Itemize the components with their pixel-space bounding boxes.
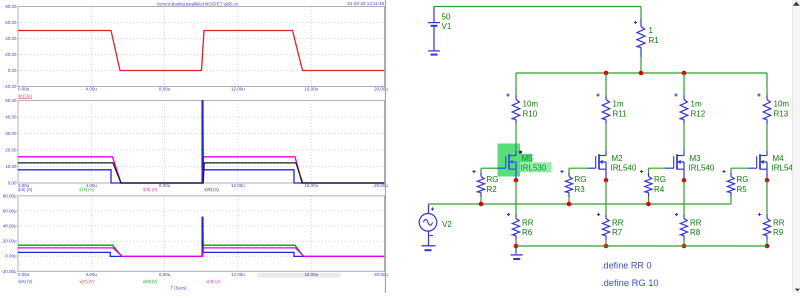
wire R2 to gate bus: [480, 197, 482, 205]
transistor M2: [587, 151, 606, 178]
junction node R3/gate bus: [567, 202, 572, 207]
waveform trace v(r8) plot 3: [18, 245, 304, 256]
label R5 name: [737, 185, 748, 194]
svg-text:8.00u: 8.00u: [159, 272, 171, 277]
junction node R2/gate bus: [479, 202, 484, 207]
svg-text:8.00u: 8.00u: [159, 183, 171, 188]
svg-text:R4: R4: [654, 185, 665, 194]
svg-text:i(v1) (A): i(v1) (A): [18, 93, 32, 98]
svg-text:i(r7) (A): i(r7) (A): [80, 187, 95, 192]
label R6 value RR: [522, 218, 534, 227]
wire M2 source to R7: [605, 180, 607, 214]
svg-text:R12: R12: [691, 109, 706, 118]
label R13 value 10m: [774, 100, 790, 109]
svg-text:RR: RR: [612, 218, 624, 227]
svg-text:40.00: 40.00: [5, 114, 17, 119]
wire M5 source to R6: [515, 180, 517, 214]
svg-text:4.00u: 4.00u: [86, 272, 98, 277]
label R8 value RR: [690, 218, 702, 227]
svg-text:20.00: 20.00: [5, 52, 17, 57]
junction node M5 source: [514, 178, 519, 183]
label R11 value 1m: [613, 100, 624, 109]
label R13 name: [774, 109, 789, 118]
resistor R12: [680, 96, 688, 125]
svg-text:20.00u: 20.00u: [3, 239, 17, 244]
svg-text:10m: 10m: [523, 100, 539, 109]
svg-text:RG: RG: [575, 175, 587, 184]
label R1 name: [649, 36, 660, 45]
svg-text:60.00: 60.00: [5, 20, 17, 25]
svg-text:0.00u: 0.00u: [5, 254, 17, 259]
junction node R4/gate bus: [646, 202, 651, 207]
waveform trace v(r9) plot 3: [18, 248, 384, 257]
wire bus to R11: [605, 73, 607, 96]
label M4 model IRL54: [772, 164, 794, 173]
svg-text:V1: V1: [442, 22, 452, 31]
battery V1: [428, 7, 440, 51]
wire R9 to ground bus: [766, 240, 768, 247]
polarity mark R2 +: [472, 170, 475, 173]
svg-text:IRL54: IRL54: [772, 164, 794, 173]
label R3 name: [575, 185, 586, 194]
svg-text:.define RR 0: .define RR 0: [601, 261, 652, 271]
junction node R9/ground bus: [765, 244, 770, 249]
label M2 name: [612, 154, 624, 163]
wire gate bus from V2: [429, 203, 732, 205]
selection highlight M5: [498, 144, 552, 177]
svg-text:50.00: 50.00: [5, 98, 17, 103]
scrollbar track: [793, 0, 800, 293]
svg-text:RR: RR: [522, 218, 534, 227]
svg-text:v(r6) (V): v(r6) (V): [18, 279, 33, 284]
svg-text:10m: 10m: [774, 100, 790, 109]
svg-text:10.00: 10.00: [5, 164, 17, 169]
svg-text:0.00u: 0.00u: [18, 272, 30, 277]
ground V2: [422, 246, 436, 250]
wire R13 to M4 drain: [766, 124, 768, 151]
polarity mark R6 +: [507, 213, 510, 216]
junction node M3 source: [682, 178, 687, 183]
svg-text:v(r9) (V): v(r9) (V): [206, 279, 221, 284]
polarity mark R9 +: [758, 213, 761, 216]
wire R7 to ground bus: [605, 240, 607, 247]
svg-text:12.00u: 12.00u: [231, 183, 245, 188]
polarity mark R13 +: [757, 93, 760, 96]
svg-text:.define RG 10: .define RG 10: [601, 278, 659, 288]
wire gate M5 to R2: [481, 168, 497, 172]
polarity mark V2 +: [431, 207, 434, 210]
wire gate M2 to R3: [569, 168, 587, 172]
svg-text:M3: M3: [690, 154, 702, 163]
svg-text:T (Secs): T (Secs): [171, 285, 187, 290]
svg-text:R6: R6: [522, 228, 533, 237]
wire top rail V1 to R1: [434, 6, 641, 8]
polarity mark R1 +: [634, 21, 637, 24]
label R4 name: [654, 185, 665, 194]
wire R8 to ground bus: [683, 240, 685, 247]
svg-text:v(r7) (V): v(r7) (V): [80, 279, 95, 284]
label R11 name: [613, 109, 628, 118]
resistor R4 (RG): [645, 173, 652, 197]
svg-text:01-02-23 13:11:48: 01-02-23 13:11:48: [348, 1, 385, 6]
svg-text:30.00: 30.00: [5, 131, 17, 136]
wire R1 to drain bus: [640, 57, 642, 73]
wire drain bus: [516, 72, 767, 74]
svg-text:IRL530: IRL530: [521, 164, 547, 173]
label R6 name: [522, 228, 533, 237]
transistor M5: [497, 151, 516, 178]
wire M3 source to R8: [683, 180, 685, 214]
svg-text:-20.00: -20.00: [4, 84, 17, 89]
svg-text:R9: R9: [773, 228, 784, 237]
polarity mark R8 +: [675, 213, 678, 216]
svg-text:R1: R1: [649, 36, 660, 45]
svg-text:12.00u: 12.00u: [231, 87, 245, 92]
waveform trace i(v1) plot 1: [18, 31, 384, 71]
wire R12 to M3 drain: [683, 124, 685, 151]
svg-text:RG: RG: [654, 175, 666, 184]
label V2 name: [442, 220, 452, 229]
scrollbar down arrow: [795, 289, 800, 292]
polarity mark R7 +: [597, 213, 600, 216]
resistor R11: [602, 96, 610, 125]
waveform trace i(r6) plot 2: [18, 101, 384, 183]
resistor R3 (RG): [565, 173, 572, 197]
junction node R8/ground bus: [682, 244, 687, 249]
svg-text:IRL540: IRL540: [611, 164, 637, 173]
svg-text:R10: R10: [523, 109, 538, 118]
selection handle M5: [519, 151, 522, 154]
label R7 name: [612, 228, 623, 237]
resistor R7 (RR): [602, 215, 609, 240]
wire bus to R10: [515, 73, 517, 96]
svg-text:RG: RG: [737, 175, 749, 184]
waveform trace v(r6) plot 3: [18, 217, 384, 256]
svg-text:16.00u: 16.00u: [304, 87, 318, 92]
label R4 value RG: [654, 175, 666, 184]
label V1 name: [442, 22, 452, 31]
sine source V2: [419, 204, 437, 245]
label M4 name: [773, 154, 785, 163]
svg-text:RR: RR: [773, 218, 785, 227]
label R8 name: [690, 228, 701, 237]
wire R5 to gate bus: [730, 197, 732, 205]
junction node R7/ground bus: [604, 244, 609, 249]
label V1 value 50: [442, 12, 451, 21]
scrollbar up arrow: [793, 2, 800, 6]
svg-text:R13: R13: [774, 109, 789, 118]
polarity mark R11 +: [596, 93, 599, 96]
resistor R6 (RR): [512, 215, 519, 240]
svg-text:i(r9) (A): i(r9) (A): [205, 187, 220, 192]
junction node R1/bus: [639, 71, 644, 76]
text .define RG 10: [601, 278, 659, 288]
resistor R5 (RG): [727, 173, 734, 197]
label R2 value RG: [487, 175, 499, 184]
ground (V1 minus plate): [431, 54, 438, 56]
polarity mark R12 +: [674, 93, 677, 96]
svg-text:R7: R7: [612, 228, 623, 237]
svg-text:R2: R2: [487, 185, 498, 194]
wire R10 to M5 drain: [515, 124, 517, 151]
polarity mark R10 +: [506, 93, 509, 96]
svg-text:-20.00u: -20.00u: [1, 269, 17, 274]
svg-text:20.00: 20.00: [5, 147, 17, 152]
svg-text:M5: M5: [522, 154, 534, 163]
polarity mark R3 +: [560, 170, 563, 173]
svg-text:50: 50: [442, 12, 451, 21]
label R10 value 10m: [523, 100, 539, 109]
text .define RR 0: [601, 261, 652, 271]
label M5 name: [522, 154, 534, 163]
svg-text:R3: R3: [575, 185, 586, 194]
svg-text:1m: 1m: [613, 100, 624, 109]
svg-text:M4: M4: [773, 154, 785, 163]
svg-text:40.00u: 40.00u: [3, 224, 17, 229]
wire R1 top corner: [640, 7, 642, 20]
svg-text:M2: M2: [612, 154, 624, 163]
ground below R6: [510, 246, 522, 259]
label R12 value 1m: [691, 100, 702, 109]
resistor R13: [763, 96, 771, 125]
svg-text:0.00: 0.00: [8, 181, 17, 186]
svg-text:R11: R11: [613, 109, 628, 118]
svg-text:R5: R5: [737, 185, 748, 194]
svg-text:60.00u: 60.00u: [3, 208, 17, 213]
svg-text:16.00u: 16.00u: [304, 272, 318, 277]
junction node M4 source: [765, 178, 770, 183]
wire bus to R13: [766, 73, 768, 96]
svg-text:V2: V2: [442, 220, 452, 229]
svg-text:R8: R8: [690, 228, 701, 237]
svg-text:i(r8) (A): i(r8) (A): [143, 187, 158, 192]
junction node R11/bus: [604, 71, 609, 76]
label R1 value 1: [649, 26, 654, 35]
resistor R1: [637, 19, 645, 57]
svg-text:1m: 1m: [691, 100, 702, 109]
wire gate M3 to R4: [649, 168, 666, 172]
svg-text:40.00: 40.00: [5, 36, 17, 41]
svg-text:80.00: 80.00: [5, 4, 17, 9]
svg-text:20.00u: 20.00u: [374, 183, 388, 188]
wire M4 source to R9: [766, 180, 768, 214]
wire bus to R12: [683, 73, 685, 96]
resistor R9 (RR): [763, 215, 770, 240]
svg-text:RG: RG: [487, 175, 499, 184]
label R9 name: [773, 228, 784, 237]
svg-text:v(r8) (V): v(r8) (V): [143, 279, 158, 284]
svg-text:1: 1: [649, 26, 654, 35]
resistor R8 (RR): [680, 215, 687, 240]
resistor R10: [512, 96, 520, 125]
junction node R12/bus: [682, 71, 687, 76]
wire R3 to gate bus: [568, 197, 570, 205]
label R2 name: [487, 185, 498, 194]
svg-text:16.00u: 16.00u: [304, 183, 318, 188]
wire R4 to gate bus: [648, 197, 650, 205]
svg-text:RR: RR: [690, 218, 702, 227]
svg-text:8.00u: 8.00u: [159, 87, 171, 92]
label M2 model IRL540: [611, 164, 637, 173]
svg-text:80.00u: 80.00u: [3, 193, 17, 198]
label R5 value RG: [737, 175, 749, 184]
label R10 name: [523, 109, 538, 118]
svg-text:12.00u: 12.00u: [231, 272, 245, 277]
label M5 model IRL530: [521, 164, 547, 173]
label R3 value RG: [575, 175, 587, 184]
svg-text:4.00u: 4.00u: [86, 87, 98, 92]
svg-text:0.00u: 0.00u: [18, 87, 30, 92]
svg-text:current sharing paralleled MOS: current sharing paralleled MOSFET v900.c…: [157, 2, 238, 7]
label M3 model IRL540: [689, 164, 715, 173]
label M3 name: [690, 154, 702, 163]
polarity mark V2 -: [430, 235, 434, 237]
resistor R2 (RG): [477, 173, 484, 197]
junction node M2 source: [604, 178, 609, 183]
waveform trace i(r9) plot 2: [18, 163, 384, 183]
wire ground bus: [516, 245, 767, 247]
polarity mark R4 +: [640, 170, 643, 173]
svg-text:20.00u: 20.00u: [374, 272, 388, 277]
junction node R6/ground bus: [514, 244, 519, 249]
polarity mark R5 +: [722, 170, 725, 173]
wire gate M4 to R5: [731, 168, 748, 172]
label R7 value RR: [612, 218, 624, 227]
svg-text:0.00: 0.00: [8, 68, 17, 73]
svg-text:IRL540: IRL540: [689, 164, 715, 173]
wire R11 to M2 drain: [605, 124, 607, 151]
transistor M3: [665, 151, 684, 178]
transistor M4: [748, 151, 767, 178]
label R12 name: [691, 109, 706, 118]
waveform trace i(r8) plot 2: [18, 157, 384, 183]
label R9 value RR: [773, 218, 785, 227]
svg-text:20.00u: 20.00u: [374, 87, 388, 92]
svg-text:i(r6) (A): i(r6) (A): [18, 187, 33, 192]
wire R6 to ground bus: [515, 240, 517, 247]
